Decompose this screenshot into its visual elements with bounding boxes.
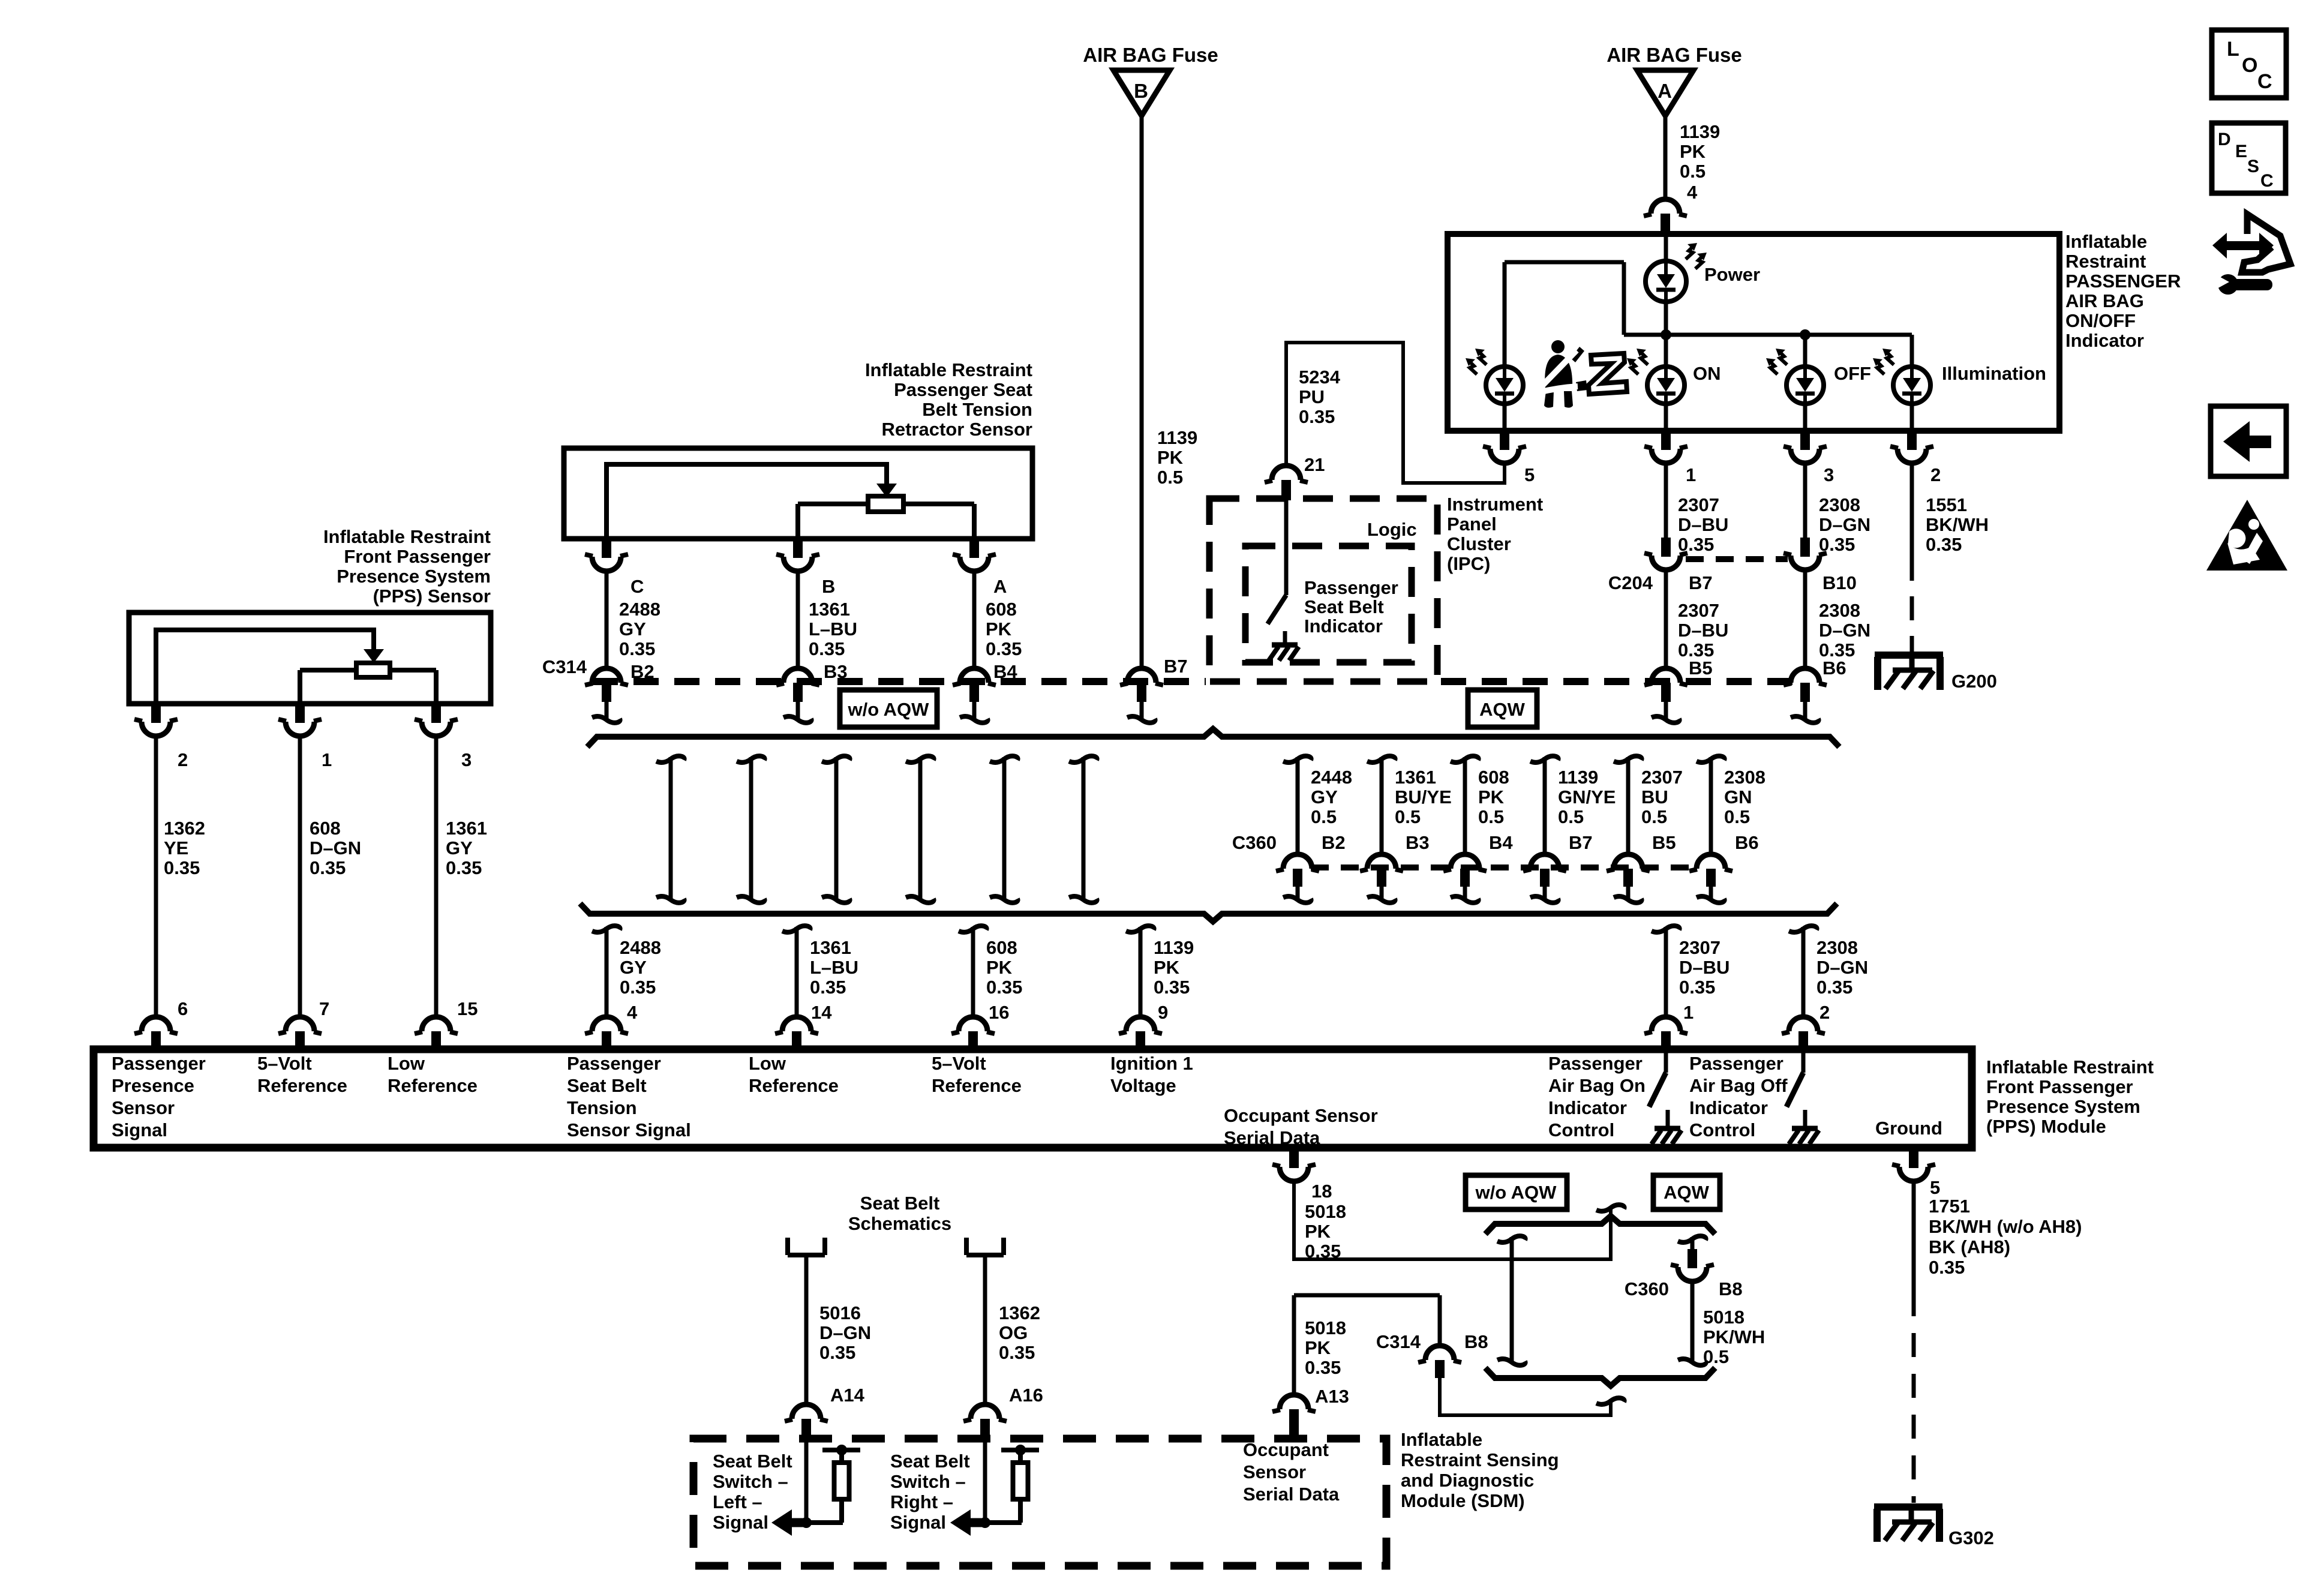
svg-text:1361: 1361 [809,599,850,620]
svg-text:2488: 2488 [620,937,661,958]
svg-text:BU/YE: BU/YE [1395,786,1452,807]
svg-text:ON: ON [1693,363,1721,384]
svg-text:0.5: 0.5 [1478,806,1504,827]
svg-text:B8: B8 [1464,1331,1488,1352]
svg-text:D–BU: D–BU [1679,957,1730,978]
svg-text:w/o AQW: w/o AQW [1475,1182,1557,1203]
svg-text:Inflatable: Inflatable [1401,1429,1482,1450]
svg-text:BU: BU [1641,786,1668,807]
svg-text:21: 21 [1304,454,1325,475]
svg-text:Front Passenger: Front Passenger [344,546,491,567]
svg-text:Seat Belt: Seat Belt [890,1451,970,1472]
svg-text:B2: B2 [1322,832,1346,853]
svg-text:3: 3 [1824,464,1834,485]
svg-text:1139: 1139 [1154,937,1194,958]
svg-text:E: E [2235,142,2247,161]
svg-text:Reference: Reference [257,1075,347,1096]
svg-text:Passenger: Passenger [112,1053,206,1074]
svg-text:L–BU: L–BU [809,619,857,640]
svg-text:2308: 2308 [1819,494,1860,515]
svg-text:2307: 2307 [1678,600,1719,621]
svg-text:Schematics: Schematics [848,1213,951,1234]
svg-text:15: 15 [457,998,478,1019]
svg-text:Sensor Signal: Sensor Signal [567,1119,691,1140]
svg-text:2488: 2488 [619,599,660,620]
svg-text:Indicator: Indicator [1548,1097,1627,1118]
svg-text:Low: Low [749,1053,786,1074]
svg-text:2: 2 [178,749,188,770]
svg-text:PK: PK [1305,1337,1331,1358]
svg-text:Retractor Sensor: Retractor Sensor [881,419,1032,440]
svg-text:Air Bag Off: Air Bag Off [1689,1075,1788,1096]
svg-text:1139: 1139 [1558,767,1598,788]
svg-text:PK: PK [1478,786,1505,807]
svg-text:1: 1 [1683,1002,1694,1023]
svg-text:Restraint Sensing: Restraint Sensing [1401,1449,1559,1470]
svg-text:2448: 2448 [1311,767,1352,788]
svg-text:0.5: 0.5 [1558,806,1584,827]
svg-text:Presence System: Presence System [1986,1096,2140,1117]
svg-text:OFF: OFF [1834,363,1871,384]
svg-text:Seat Belt: Seat Belt [1304,596,1384,617]
svg-text:Control: Control [1689,1119,1755,1140]
svg-text:BK (AH8): BK (AH8) [1929,1236,2010,1257]
svg-text:C: C [2260,171,2274,191]
svg-text:B7: B7 [1164,656,1188,677]
svg-text:1751: 1751 [1929,1196,1970,1217]
svg-text:PK: PK [986,957,1013,978]
svg-text:Presence: Presence [112,1075,194,1096]
svg-text:2308: 2308 [1724,767,1765,788]
svg-text:C: C [630,576,644,597]
svg-text:Ground: Ground [1875,1118,1942,1139]
svg-text:D–GN: D–GN [1819,514,1870,535]
svg-text:GY: GY [620,957,647,978]
svg-text:0.5: 0.5 [1395,806,1421,827]
svg-text:Passenger: Passenger [567,1053,661,1074]
svg-text:2: 2 [1819,1002,1830,1023]
svg-text:PASSENGER: PASSENGER [2065,271,2181,292]
svg-text:0.35: 0.35 [164,857,200,878]
svg-text:Cluster: Cluster [1447,533,1511,554]
svg-text:Panel: Panel [1447,514,1497,535]
svg-text:Inflatable Restraint: Inflatable Restraint [1986,1056,2154,1077]
svg-text:0.35: 0.35 [819,1342,855,1363]
svg-text:Air Bag On: Air Bag On [1548,1075,1646,1096]
svg-text:G200: G200 [1951,671,1997,692]
svg-text:GY: GY [1311,786,1338,807]
svg-text:B4: B4 [1489,832,1513,853]
svg-text:2308: 2308 [1819,600,1860,621]
svg-text:PK: PK [1680,141,1706,162]
svg-text:B7: B7 [1569,832,1593,853]
svg-text:C360: C360 [1232,832,1277,853]
svg-text:1362: 1362 [999,1302,1040,1323]
svg-text:Module (SDM): Module (SDM) [1401,1490,1525,1511]
svg-text:Seat Belt: Seat Belt [567,1075,647,1096]
svg-text:2307: 2307 [1679,937,1721,958]
svg-text:608: 608 [1478,767,1509,788]
svg-text:Seat Belt: Seat Belt [713,1451,792,1472]
svg-text:Inflatable Restraint: Inflatable Restraint [865,359,1032,380]
svg-text:2307: 2307 [1641,767,1683,788]
svg-text:5: 5 [1930,1177,1940,1198]
svg-text:Signal: Signal [713,1512,768,1533]
svg-text:0.35: 0.35 [1679,977,1715,998]
svg-text:B6: B6 [1735,832,1759,853]
svg-text:OG: OG [999,1322,1028,1343]
svg-text:PK: PK [1157,447,1184,468]
svg-text:C: C [2257,70,2272,93]
svg-text:L–BU: L–BU [810,957,858,978]
svg-text:Right –: Right – [890,1491,953,1512]
svg-text:Sensor: Sensor [112,1097,175,1118]
svg-text:0.5: 0.5 [1157,467,1183,488]
svg-text:5018: 5018 [1305,1201,1346,1222]
svg-text:0.5: 0.5 [1641,806,1667,827]
svg-text:Low: Low [388,1053,425,1074]
svg-text:5: 5 [1524,464,1535,485]
svg-text:GY: GY [446,837,473,858]
svg-text:and Diagnostic: and Diagnostic [1401,1470,1534,1491]
svg-text:B6: B6 [1822,658,1846,679]
svg-text:5–Volt: 5–Volt [257,1053,312,1074]
svg-text:0.35: 0.35 [620,977,656,998]
svg-text:GN/YE: GN/YE [1558,786,1616,807]
svg-text:0.5: 0.5 [1680,161,1706,182]
svg-text:A13: A13 [1315,1386,1349,1407]
svg-text:18: 18 [1311,1181,1332,1202]
svg-text:Front Passenger: Front Passenger [1986,1076,2133,1097]
svg-text:Power: Power [1704,264,1760,285]
svg-text:Serial Data: Serial Data [1243,1484,1340,1505]
svg-text:1: 1 [1686,464,1696,485]
svg-text:5018: 5018 [1305,1317,1346,1338]
svg-text:3: 3 [461,749,472,770]
svg-text:608: 608 [986,937,1017,958]
svg-text:2308: 2308 [1816,937,1858,958]
svg-text:PK: PK [1305,1221,1331,1242]
svg-text:B: B [1134,80,1148,102]
svg-text:ON/OFF: ON/OFF [2065,310,2136,331]
svg-text:PK: PK [1154,957,1180,978]
svg-text:Sensor: Sensor [1243,1461,1306,1482]
svg-text:0.35: 0.35 [310,857,346,878]
svg-text:0.35: 0.35 [1929,1257,1965,1278]
svg-text:608: 608 [986,599,1017,620]
svg-text:5018: 5018 [1703,1307,1744,1328]
svg-text:1139: 1139 [1680,121,1720,142]
svg-text:1361: 1361 [446,818,487,839]
svg-text:Indicator: Indicator [2065,330,2144,351]
svg-text:O: O [2242,54,2257,77]
svg-text:B7: B7 [1689,572,1713,593]
svg-text:A: A [993,576,1007,597]
svg-text:Inflatable: Inflatable [2065,231,2147,252]
svg-text:Belt Tension: Belt Tension [922,399,1032,420]
svg-text:B: B [822,576,835,597]
svg-text:0.35: 0.35 [1926,534,1962,555]
svg-text:0.35: 0.35 [809,638,845,659]
svg-text:6: 6 [178,998,188,1019]
svg-text:PK/WH: PK/WH [1703,1326,1765,1347]
svg-text:(PPS) Sensor: (PPS) Sensor [373,586,491,607]
svg-text:Presence System: Presence System [337,566,491,587]
svg-text:Seat Belt: Seat Belt [860,1193,940,1214]
svg-text:Reference: Reference [749,1075,839,1096]
svg-text:7: 7 [319,998,329,1019]
svg-text:0.35: 0.35 [986,977,1022,998]
svg-text:Serial Data: Serial Data [1224,1127,1320,1148]
svg-text:B5: B5 [1652,832,1676,853]
svg-text:0.35: 0.35 [1299,406,1335,427]
svg-text:0.5: 0.5 [1724,806,1750,827]
svg-text:Indicator: Indicator [1689,1097,1768,1118]
svg-text:GN: GN [1724,786,1752,807]
svg-text:0.35: 0.35 [986,638,1022,659]
svg-text:A14: A14 [830,1385,865,1406]
svg-text:4: 4 [627,1002,638,1023]
svg-text:0.35: 0.35 [1305,1357,1341,1378]
svg-text:Indicator: Indicator [1304,616,1383,637]
svg-text:Switch –: Switch – [890,1471,966,1492]
svg-text:B3: B3 [1406,832,1430,853]
svg-text:GY: GY [619,619,646,640]
svg-text:Instrument: Instrument [1447,494,1543,515]
svg-text:A: A [1658,80,1672,102]
svg-text:1361: 1361 [810,937,851,958]
svg-text:S: S [2247,157,2259,176]
svg-text:14: 14 [811,1002,832,1023]
svg-text:D–GN: D–GN [819,1322,871,1343]
svg-text:Passenger Seat: Passenger Seat [894,379,1032,400]
svg-text:0.35: 0.35 [810,977,846,998]
svg-text:Passenger: Passenger [1689,1053,1783,1074]
svg-text:Occupant: Occupant [1243,1439,1329,1460]
svg-text:16: 16 [989,1002,1009,1023]
svg-text:Left –: Left – [713,1491,762,1512]
svg-text:D–BU: D–BU [1678,514,1728,535]
svg-text:Signal: Signal [112,1119,167,1140]
svg-text:Voltage: Voltage [1110,1075,1176,1096]
svg-text:AIR BAG Fuse: AIR BAG Fuse [1607,44,1742,66]
svg-text:Inflatable Restraint: Inflatable Restraint [323,526,491,547]
svg-text:9: 9 [1158,1002,1168,1023]
svg-text:C360: C360 [1625,1278,1669,1299]
svg-text:1362: 1362 [164,818,205,839]
svg-text:Passenger: Passenger [1548,1053,1643,1074]
svg-text:AIR BAG: AIR BAG [2065,290,2144,311]
svg-text:Restraint: Restraint [2065,251,2146,272]
svg-text:Reference: Reference [932,1075,1022,1096]
svg-text:0.5: 0.5 [1311,806,1337,827]
svg-text:AIR BAG Fuse: AIR BAG Fuse [1083,44,1218,66]
svg-text:YE: YE [164,837,188,858]
svg-text:AQW: AQW [1664,1182,1710,1203]
svg-text:D–GN: D–GN [310,837,361,858]
svg-text:A16: A16 [1009,1385,1043,1406]
svg-text:C314: C314 [542,656,587,677]
svg-text:C204: C204 [1608,572,1653,593]
svg-text:0.35: 0.35 [446,857,482,878]
svg-text:L: L [2227,38,2239,61]
svg-text:2307: 2307 [1678,494,1719,515]
svg-text:Switch –: Switch – [713,1471,788,1492]
svg-text:Reference: Reference [388,1075,478,1096]
svg-text:G302: G302 [1948,1527,1994,1548]
svg-text:C314: C314 [1376,1331,1421,1352]
svg-text:Tension: Tension [567,1097,637,1118]
svg-text:PU: PU [1299,386,1325,407]
svg-text:(IPC): (IPC) [1447,553,1490,574]
svg-text:AQW: AQW [1479,699,1526,720]
svg-text:BK/WH: BK/WH [1926,514,1989,535]
svg-text:Ignition 1: Ignition 1 [1110,1053,1193,1074]
svg-text:BK/WH (w/o AH8): BK/WH (w/o AH8) [1929,1216,2082,1237]
svg-text:w/o AQW: w/o AQW [848,699,930,720]
svg-text:(PPS) Module: (PPS) Module [1986,1116,2106,1137]
svg-text:D–GN: D–GN [1816,957,1868,978]
svg-text:5016: 5016 [819,1302,861,1323]
svg-text:Control: Control [1548,1119,1614,1140]
svg-text:5234: 5234 [1299,367,1341,388]
svg-text:1139: 1139 [1157,427,1197,448]
svg-text:Occupant Sensor: Occupant Sensor [1224,1105,1378,1126]
svg-text:608: 608 [310,818,341,839]
svg-text:Logic: Logic [1367,519,1417,540]
svg-text:1551: 1551 [1926,494,1967,515]
svg-text:0.35: 0.35 [619,638,655,659]
svg-text:D–BU: D–BU [1678,620,1728,641]
svg-text:1361: 1361 [1395,767,1436,788]
svg-text:0.35: 0.35 [1154,977,1190,998]
svg-text:Illumination: Illumination [1942,363,2046,384]
svg-text:2: 2 [1930,464,1941,485]
svg-text:B8: B8 [1719,1278,1743,1299]
svg-text:Passenger: Passenger [1304,577,1398,598]
svg-text:0.35: 0.35 [999,1342,1035,1363]
svg-text:5–Volt: 5–Volt [932,1053,986,1074]
svg-text:D: D [2218,130,2231,149]
svg-text:D–GN: D–GN [1819,620,1870,641]
svg-text:PK: PK [986,619,1012,640]
svg-text:0.35: 0.35 [1305,1241,1341,1262]
svg-text:B10: B10 [1822,572,1857,593]
svg-text:B5: B5 [1689,658,1713,679]
svg-text:1: 1 [322,749,332,770]
svg-text:4: 4 [1687,182,1698,203]
svg-text:Signal: Signal [890,1512,946,1533]
svg-text:0.35: 0.35 [1816,977,1852,998]
